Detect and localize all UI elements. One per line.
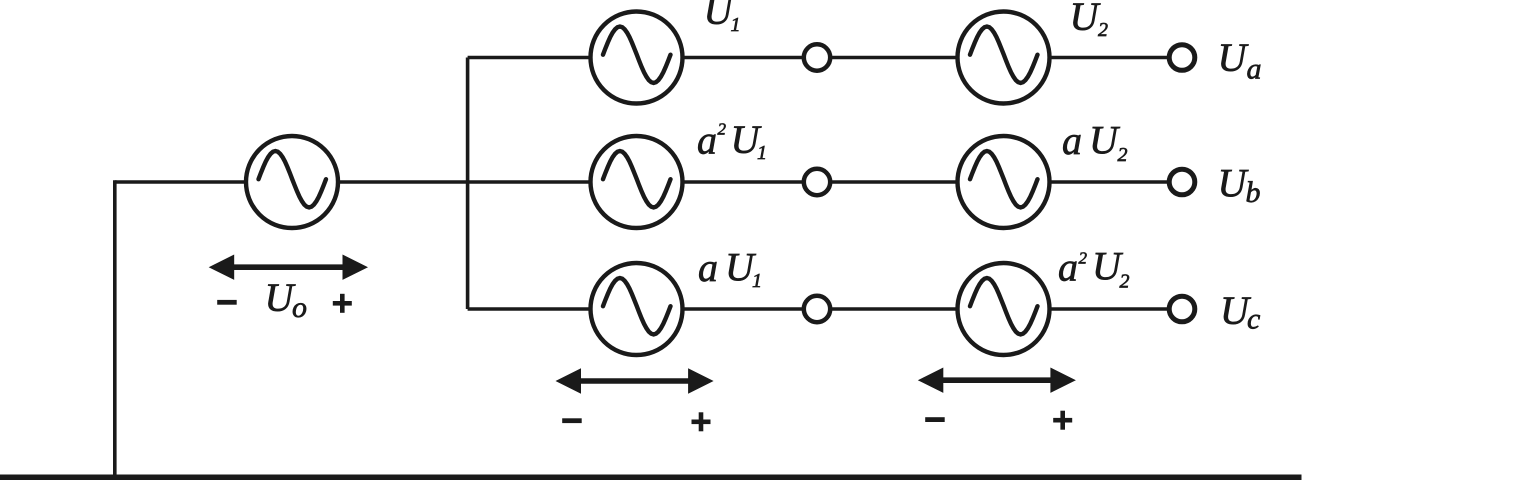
- svg-text:o: o: [292, 291, 307, 324]
- svg-text:1: 1: [757, 142, 767, 164]
- svg-text:a: a: [1058, 245, 1078, 290]
- svg-text:2: 2: [1120, 270, 1130, 292]
- svg-text:U: U: [1218, 35, 1250, 80]
- svg-text:2: 2: [1118, 144, 1128, 166]
- svg-text:2: 2: [1098, 19, 1108, 41]
- svg-text:U: U: [1070, 0, 1102, 39]
- svg-text:U: U: [1089, 118, 1121, 163]
- svg-text:a: a: [697, 117, 717, 162]
- svg-text:2: 2: [1079, 248, 1088, 267]
- svg-text:1: 1: [752, 270, 762, 292]
- svg-text:a: a: [1062, 118, 1082, 163]
- svg-text:1: 1: [731, 14, 741, 36]
- svg-text:b: b: [1246, 176, 1261, 209]
- svg-text:2: 2: [718, 120, 727, 139]
- svg-text:c: c: [1247, 303, 1260, 336]
- svg-text:a: a: [1247, 53, 1262, 86]
- svg-text:a: a: [698, 245, 718, 290]
